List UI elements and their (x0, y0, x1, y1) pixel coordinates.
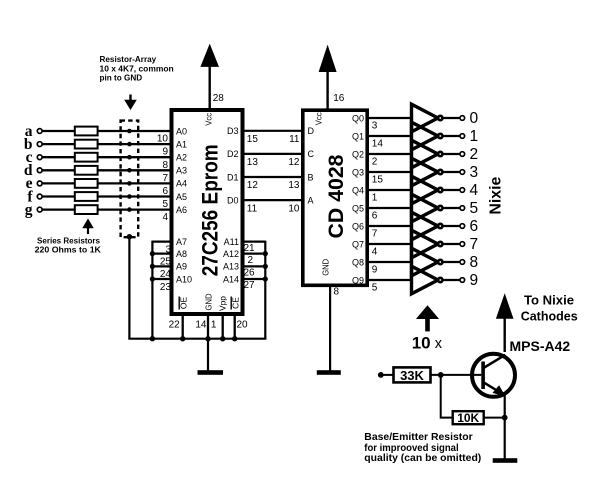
svg-text:Q9: Q9 (352, 275, 364, 285)
wire terminal to 33K (381, 374, 394, 376)
svg-text:Vcc: Vcc (204, 112, 214, 126)
svg-text:1: 1 (211, 319, 217, 330)
wire input e to resistor (42, 182, 74, 184)
driver stage bubble 7 (438, 242, 442, 246)
svg-text:23: 23 (160, 282, 172, 293)
junction dot A8 stub (150, 251, 155, 256)
input b terminal (24, 136, 42, 153)
wire input c to resistor (42, 156, 74, 158)
wire driver 1 to output terminal (444, 135, 460, 137)
svg-text:GND: GND (204, 294, 214, 311)
svg-text:A14: A14 (223, 274, 239, 284)
wire 4028 Q3 to driver 3 (369, 171, 412, 173)
driver stage triangle 3 (412, 158, 439, 186)
svg-text:A3: A3 (176, 166, 187, 176)
wire eprom bottom stub pin 20 (234, 314, 236, 339)
resistor 10K (453, 411, 484, 424)
output terminal 1 (460, 134, 465, 139)
svg-text:15: 15 (247, 134, 259, 145)
wire resistor d to eprom pin A3 (98, 169, 171, 171)
series resistor row b (75, 140, 98, 149)
svg-text:2: 2 (372, 157, 378, 168)
svg-text:D2: D2 (227, 149, 239, 159)
driver stage triangle 9 (412, 266, 439, 294)
junction dot array row d (127, 168, 132, 173)
junction dot array row f (127, 194, 132, 199)
svg-text:11: 11 (247, 203, 258, 214)
wire base node down to 10K (441, 375, 453, 418)
svg-text:7: 7 (372, 229, 378, 240)
svg-text:27: 27 (244, 280, 256, 291)
svg-text:8: 8 (334, 287, 340, 298)
wire 4028 Q5 to driver 5 (369, 207, 412, 209)
driver stage triangle 5 (412, 194, 439, 222)
wire input b to resistor (42, 143, 74, 145)
driver stage triangle 7 (412, 230, 439, 258)
series resistor row a (75, 127, 98, 136)
ground symbol eprom (198, 370, 224, 375)
junction dot base node (438, 372, 444, 378)
4028 Vcc supply arrow (319, 45, 337, 109)
driver stage bubble 4 (438, 188, 442, 192)
svg-text:A6: A6 (176, 205, 187, 215)
wire 4028 Q7 to driver 7 (369, 243, 412, 245)
down arrow pointing at resistor array (124, 95, 137, 111)
wire eprom bottom stub pin 14 (207, 314, 209, 339)
ground symbol transistor emitter (493, 458, 518, 463)
resistor array dashed box (121, 121, 139, 238)
svg-text:A8: A8 (176, 249, 187, 259)
wire 4028 GND down (329, 287, 331, 371)
junction dot A9 stub (150, 264, 155, 269)
output terminal 4 (460, 188, 465, 193)
svg-text:12: 12 (288, 157, 300, 168)
wire 10K to emitter (484, 417, 505, 419)
wire 4028 Q2 to driver 2 (369, 153, 412, 155)
wire eprom A12 stub (243, 252, 265, 254)
series resistor row g (75, 205, 98, 214)
svg-text:g: g (25, 201, 33, 218)
junction dot array row a (127, 129, 132, 134)
svg-text:10: 10 (288, 203, 300, 214)
driver stage bubble 2 (438, 152, 442, 156)
svg-text:A9: A9 (176, 262, 187, 272)
note base/emitter resistor (364, 432, 481, 464)
svg-text:14: 14 (195, 319, 207, 330)
bold up arrow (10x stages) (416, 305, 439, 331)
svg-text:Vpp: Vpp (217, 296, 227, 311)
output terminal 6 (460, 224, 465, 229)
wire eprom A11 stub (243, 240, 265, 242)
series resistor row f (75, 192, 98, 201)
svg-text:Vcc: Vcc (313, 112, 323, 126)
wire resistor a to eprom pin A0 (98, 130, 171, 132)
output terminal 0 (460, 116, 465, 121)
junction dot array row g (127, 207, 132, 212)
output terminal 9 (460, 278, 465, 283)
svg-text:27C256 Eprom: 27C256 Eprom (198, 144, 223, 276)
svg-text:33K: 33K (400, 368, 424, 383)
svg-text:D3: D3 (227, 126, 239, 136)
svg-text:Q3: Q3 (352, 167, 364, 177)
driver stage bubble 5 (438, 206, 442, 210)
wire input a to resistor (42, 130, 74, 132)
transistor base bar (481, 362, 485, 390)
svg-text:4: 4 (372, 247, 378, 258)
wire resistor b to eprom pin A1 (98, 143, 171, 145)
svg-text:A4: A4 (176, 179, 187, 189)
label "Series Resistors 220 Ohms to 1K" (35, 236, 102, 255)
svg-text:Cathodes: Cathodes (521, 309, 578, 324)
resistor 33K (394, 367, 431, 382)
svg-text:20: 20 (236, 319, 248, 330)
decoder U2 CD4028 body (303, 110, 367, 285)
svg-text:3: 3 (372, 121, 378, 132)
svg-text:10: 10 (412, 333, 431, 352)
svg-text:Q6: Q6 (352, 221, 364, 231)
output terminal 8 (460, 260, 465, 265)
svg-text:1: 1 (470, 128, 479, 145)
svg-text:14: 14 (372, 139, 384, 150)
driver stage triangle 6 (412, 212, 439, 240)
wire eprom D3 to 4028 (245, 130, 303, 132)
svg-text:Q1: Q1 (352, 131, 364, 141)
svg-text:A12: A12 (223, 249, 239, 259)
wire 4028 Q0 to driver 0 (369, 117, 412, 119)
svg-text:x: x (435, 336, 443, 352)
wire 4028 Q1 to driver 1 (369, 135, 412, 137)
svg-text:MPS-A42: MPS-A42 (510, 339, 571, 354)
wire 4028 Q4 to driver 4 (369, 189, 412, 191)
supply arrow to nixie cathodes (496, 293, 514, 352)
svg-text:13: 13 (247, 157, 259, 168)
svg-text:CE: CE (231, 297, 241, 309)
svg-text:B: B (308, 172, 314, 182)
output terminal 3 (460, 170, 465, 175)
svg-text:Q7: Q7 (352, 239, 364, 249)
junction dot emitter node (502, 415, 508, 421)
wire emitter down to ground (504, 396, 506, 459)
svg-text:26: 26 (244, 268, 256, 279)
junction dot ground rail (232, 336, 237, 341)
junction dot array row e (127, 181, 132, 186)
svg-text:22: 22 (169, 319, 181, 330)
label "Resistor-Array 10 x 4K7, common pin to GND" (100, 54, 174, 82)
svg-text:25: 25 (160, 256, 172, 267)
input g terminal (25, 201, 42, 218)
junction dot ground rail (205, 336, 210, 341)
junction dot array row c (127, 155, 132, 160)
svg-text:GND: GND (320, 259, 330, 276)
wire eprom GND down (207, 339, 209, 371)
input f terminal (27, 188, 42, 205)
svg-text:13: 13 (288, 180, 300, 191)
wire driver 6 to output terminal (444, 225, 460, 227)
junction dot ground rail (180, 336, 185, 341)
ground symbol 4028 (317, 370, 341, 375)
ground rail under eprom (128, 338, 266, 340)
series resistor row c (75, 153, 98, 162)
wire eprom A10 stub (152, 278, 171, 280)
svg-text:Q5: Q5 (352, 203, 364, 213)
input d terminal (24, 162, 42, 179)
driver stage triangle 4 (412, 176, 439, 204)
driver stage bubble 1 (438, 134, 442, 138)
eprom U1 27C256 body (172, 110, 243, 314)
wire 4028 Q6 to driver 6 (369, 225, 412, 227)
wire eprom bottom stub pin 1 (222, 314, 224, 339)
svg-text:8: 8 (470, 254, 479, 271)
wire 4028 Q8 to driver 8 (369, 261, 412, 263)
svg-text:24: 24 (160, 269, 172, 280)
svg-text:4: 4 (162, 212, 168, 223)
svg-text:A7: A7 (176, 237, 187, 247)
svg-text:10K: 10K (457, 411, 479, 425)
svg-text:Base/Emitter Resistor: Base/Emitter Resistor (364, 432, 472, 443)
wire input d to resistor (42, 169, 74, 171)
driver stage bubble 6 (438, 224, 442, 228)
svg-text:A13: A13 (223, 262, 239, 272)
wire 4028 Q9 to driver 9 (369, 279, 412, 281)
svg-text:0: 0 (470, 110, 479, 127)
svg-text:11: 11 (289, 134, 300, 145)
svg-text:C: C (308, 149, 315, 159)
junction dot A14 stub (263, 276, 268, 281)
wire driver 5 to output terminal (444, 207, 460, 209)
output terminal 5 (460, 206, 465, 211)
wire driver 3 to output terminal (444, 171, 460, 173)
wire driver 9 to output terminal (444, 279, 460, 281)
wire input f to resistor (42, 195, 74, 197)
svg-text:A2: A2 (176, 153, 187, 163)
driver stage bubble 0 (438, 116, 442, 120)
output terminal 7 (460, 242, 465, 247)
wire eprom A9 stub (152, 265, 171, 267)
series resistor row e (75, 179, 98, 188)
wire eprom bottom stub pin 22 (182, 314, 184, 339)
svg-text:Q4: Q4 (352, 185, 364, 195)
junction dot A12 stub (263, 251, 268, 256)
driver stage triangle 2 (412, 140, 439, 168)
svg-text:CD 4028: CD 4028 (325, 154, 348, 238)
transistor collector lead (484, 355, 506, 368)
output terminal 2 (460, 152, 465, 157)
series resistor row d (75, 166, 98, 175)
junction dot A10 stub (150, 276, 155, 281)
svg-text:A11: A11 (224, 237, 239, 247)
svg-text:220 Ohms to 1K: 220 Ohms to 1K (35, 244, 102, 254)
svg-text:D: D (308, 126, 315, 136)
svg-text:28: 28 (213, 93, 225, 104)
wire array common pin down to ground rail (128, 237, 130, 339)
wire 33K to base (431, 374, 482, 376)
svg-text:21: 21 (244, 243, 256, 254)
svg-text:A5: A5 (176, 192, 187, 202)
junction dot A13 stub (263, 264, 268, 269)
svg-text:7: 7 (470, 236, 479, 253)
svg-text:Q2: Q2 (352, 149, 364, 159)
wire input g to resistor (42, 208, 74, 210)
wire eprom D1 to 4028 (245, 176, 303, 178)
svg-text:D0: D0 (227, 195, 239, 205)
svg-text:To Nixie: To Nixie (524, 292, 574, 307)
svg-text:A0: A0 (176, 126, 187, 136)
svg-text:5: 5 (470, 200, 479, 217)
driver stage bubble 9 (438, 278, 442, 282)
wire resistor f to eprom pin A5 (98, 195, 171, 197)
wire eprom A7 stub (152, 240, 171, 242)
wire resistor c to eprom pin A2 (98, 156, 171, 158)
wire resistor e to eprom pin A4 (98, 182, 171, 184)
svg-text:6: 6 (372, 211, 378, 222)
up arrow pointing at series resistors (82, 219, 94, 235)
svg-text:A1: A1 (176, 139, 187, 149)
wire eprom D2 to 4028 (245, 153, 303, 155)
driver stage triangle 1 (412, 122, 439, 150)
svg-text:5: 5 (372, 283, 378, 294)
svg-text:pin to GND: pin to GND (100, 72, 143, 82)
eprom Vcc supply arrow (200, 44, 219, 108)
wire driver 2 to output terminal (444, 153, 460, 155)
wire driver 7 to output terminal (444, 243, 460, 245)
svg-text:9: 9 (470, 272, 479, 289)
svg-text:15: 15 (372, 175, 384, 186)
junction dot ground rail (220, 336, 225, 341)
transistor emitter lead with arrow (484, 382, 505, 395)
wire resistor g to eprom pin A6 (98, 208, 171, 210)
svg-text:3: 3 (470, 164, 479, 181)
junction dot array row b (127, 142, 132, 147)
wire driver 4 to output terminal (444, 189, 460, 191)
input a terminal (25, 123, 42, 140)
svg-text:2: 2 (470, 146, 479, 163)
input terminal dot 33K (378, 372, 384, 378)
wire A7-A10 common vertical to ground rail (151, 241, 153, 339)
label To Nixie Cathodes (521, 292, 578, 323)
svg-text:A: A (308, 195, 314, 205)
svg-text:6: 6 (470, 218, 479, 235)
svg-text:9: 9 (372, 265, 378, 276)
wire A11-A14 common vertical to ground rail (264, 241, 266, 339)
svg-text:16: 16 (333, 93, 345, 104)
svg-text:D1: D1 (227, 172, 239, 182)
driver stage triangle 0 (412, 104, 439, 132)
wire eprom D0 to 4028 (245, 199, 303, 201)
svg-text:A10: A10 (176, 274, 192, 284)
input c terminal (26, 149, 42, 166)
svg-text:3: 3 (165, 244, 171, 255)
svg-text:4: 4 (470, 182, 479, 199)
driver stage triangle 8 (412, 248, 439, 276)
svg-text:2: 2 (248, 255, 254, 266)
svg-text:quality (can be omitted): quality (can be omitted) (364, 453, 481, 464)
driver stage bubble 8 (438, 260, 442, 264)
wire eprom A8 stub (152, 252, 171, 254)
junction dot ground rail (150, 336, 155, 341)
svg-text:1: 1 (372, 193, 378, 204)
wire eprom A14 stub (243, 278, 265, 280)
wire driver 8 to output terminal (444, 261, 460, 263)
svg-text:Q0: Q0 (352, 113, 364, 123)
svg-text:Nixie: Nixie (487, 177, 504, 215)
wire driver 0 to output terminal (444, 117, 460, 119)
resistor array common pin dot (127, 234, 132, 239)
wire eprom A13 stub (243, 265, 265, 267)
svg-text:Q8: Q8 (352, 257, 364, 267)
svg-text:12: 12 (247, 180, 259, 191)
driver stage bubble 3 (438, 170, 442, 174)
svg-text:OE: OE (179, 297, 189, 310)
transistor Q1 MPS-A42 body circle (472, 354, 515, 397)
input e terminal (26, 175, 42, 192)
